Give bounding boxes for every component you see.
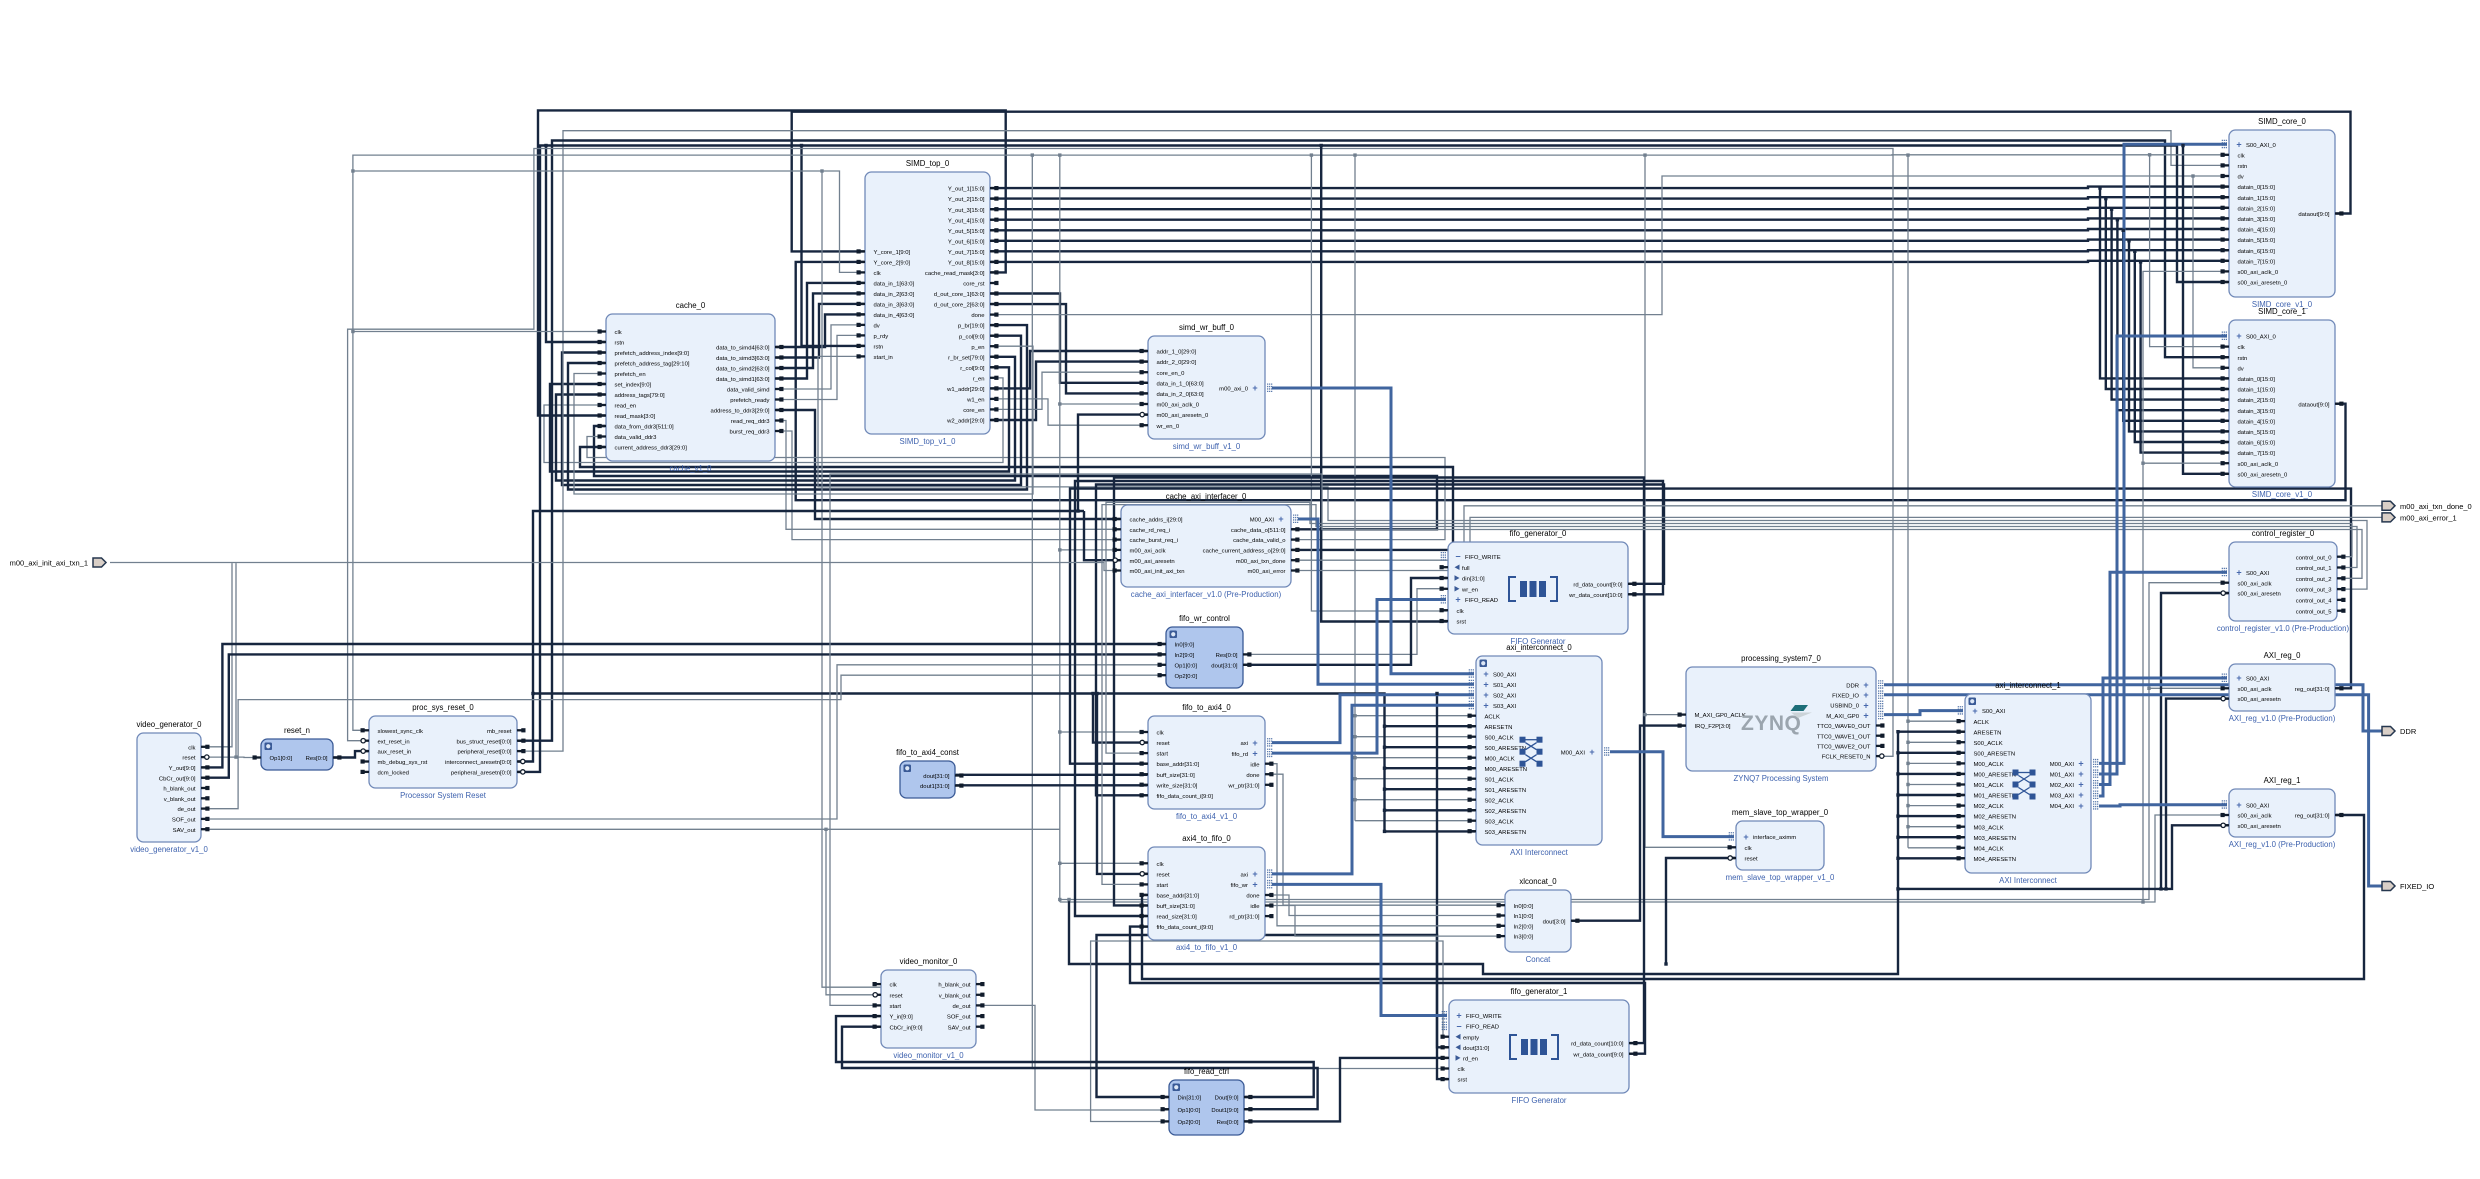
wire net_clk_bottom (1060, 815, 2229, 902)
svg-text:S02_ACLK: S02_ACLK (1485, 798, 1514, 804)
svg-text:ACLK: ACLK (1974, 720, 1989, 726)
svg-text:ARESETN: ARESETN (1974, 730, 2002, 736)
svg-text:axi4_to_fifo_0: axi4_to_fifo_0 (1182, 834, 1231, 843)
svg-text:wr_data_count[9:0]: wr_data_count[9:0] (1572, 1052, 1623, 1058)
svg-text:dv: dv (874, 324, 880, 330)
svg-text:de_out: de_out (177, 807, 195, 813)
wire net_Y_out_4_br (2117, 220, 2229, 411)
wire net_wr_count0 (1075, 481, 1663, 916)
svg-text:+: + (1252, 869, 1257, 879)
svg-text:data_valid_simd: data_valid_simd (727, 388, 770, 394)
svg-text:−: − (1455, 552, 1460, 562)
svg-text:+: + (1863, 711, 1868, 721)
svg-text:M00_ACLK: M00_ACLK (1974, 762, 2004, 768)
wire net_peripheral_aresetn_br2 (546, 146, 606, 343)
svg-text:Y_out_8[15:0]: Y_out_8[15:0] (948, 261, 985, 267)
svg-text:h_blank_out: h_blank_out (163, 787, 195, 793)
svg-text:reset: reset (182, 756, 195, 762)
svg-text:+: + (2078, 769, 2083, 779)
svg-text:In2[9:0]: In2[9:0] (1175, 653, 1195, 659)
wire net_clk_ic1_3 (1908, 784, 1965, 786)
wire net_clk_ps7 (1645, 714, 1686, 716)
port m00_axi_error_1 (2382, 513, 2457, 523)
wire net_error (1291, 517, 2382, 570)
svg-text:ZYNQ: ZYNQ (1741, 712, 1801, 735)
svg-text:M00_ARESETN: M00_ARESETN (1974, 773, 2017, 779)
wire net_aresetn_R2 (1898, 825, 2229, 889)
wire net_clk_ic1_1 (1908, 741, 1965, 743)
svg-text:control_out_1: control_out_1 (2296, 566, 2332, 572)
svg-text:Res[0:0]: Res[0:0] (1216, 653, 1238, 659)
svg-text:Y_out_1[15:0]: Y_out_1[15:0] (948, 187, 985, 193)
wire net_ctrl_out1 (1102, 505, 2357, 885)
svg-text:m00_axi_init_axi_txn_1: m00_axi_init_axi_txn_1 (10, 559, 88, 568)
svg-text:In2[0:0]: In2[0:0] (1514, 924, 1534, 930)
wire net_bus_struct (517, 141, 2229, 741)
block SIMD_core_1 (2221, 307, 2344, 499)
wire net_clk_simd_top (353, 171, 865, 272)
svg-text:axi4_to_fifo_v1_0: axi4_to_fifo_v1_0 (1176, 943, 1238, 952)
wire net_clk_fta4 (1060, 731, 1148, 733)
wire net_clk_core1 (2150, 155, 2229, 347)
svg-text:control_register_0: control_register_0 (2252, 529, 2315, 538)
svg-text:fifo_data_count_i[9:0]: fifo_data_count_i[9:0] (1157, 794, 1214, 800)
svg-text:Op1[0:0]: Op1[0:0] (270, 756, 293, 762)
wire net_SOF_out (201, 665, 1166, 819)
wire net_clk_cache (353, 331, 606, 333)
svg-text:w1_addr[29:0]: w1_addr[29:0] (946, 387, 985, 393)
block fifo_generator_0 (1440, 529, 1637, 646)
wire net_core_en (990, 372, 1148, 409)
svg-text:IRQ_F2P[3:0]: IRQ_F2P[3:0] (1695, 724, 1731, 730)
svg-text:AXI Interconnect: AXI Interconnect (1510, 848, 1568, 857)
svg-text:data_in_2[63:0]: data_in_2[63:0] (874, 292, 915, 298)
svg-text:idle: idle (1250, 904, 1260, 910)
svg-text:done: done (971, 313, 985, 319)
wire net_p_br (568, 325, 1027, 489)
svg-text:M01_AXI: M01_AXI (2050, 773, 2075, 779)
svg-text:video_generator_0: video_generator_0 (136, 720, 202, 729)
svg-text:cache_axi_interfacer_0: cache_axi_interfacer_0 (1166, 492, 1247, 501)
svg-text:reset: reset (890, 993, 903, 999)
wire net_aresetn_ic1_816 (1898, 815, 1965, 817)
svg-text:M_AXI_GP0: M_AXI_GP0 (1826, 714, 1859, 720)
svg-text:S03_ACLK: S03_ACLK (1485, 819, 1514, 825)
svg-text:Op2[0:0]: Op2[0:0] (1178, 1120, 1201, 1126)
block xlconcat_0 (1497, 877, 1580, 964)
svg-text:+: + (2078, 801, 2083, 811)
svg-text:clk: clk (1157, 731, 1164, 737)
svg-text:cache_addrs_i[29:0]: cache_addrs_i[29:0] (1130, 518, 1183, 524)
svg-text:dv: dv (2238, 366, 2244, 372)
wire net_reset_n_res (333, 751, 369, 757)
wire net_aresetn_ic0_768 (1385, 767, 1477, 769)
svg-text:S01_ARESETN: S01_ARESETN (1485, 788, 1527, 794)
svg-text:interconnect_aresetn[0:0]: interconnect_aresetn[0:0] (445, 760, 512, 766)
svg-text:slowest_sync_clk: slowest_sync_clk (378, 729, 424, 735)
svg-text:peripheral_reset[0:0]: peripheral_reset[0:0] (457, 750, 511, 756)
svg-text:data_in_2_0[63:0]: data_in_2_0[63:0] (1157, 392, 1205, 398)
svg-text:ext_reset_in: ext_reset_in (378, 739, 410, 745)
block SIMD_core_0 (2221, 117, 2344, 309)
svg-text:S00_AXI_0: S00_AXI_0 (2246, 143, 2277, 149)
svg-text:clk: clk (1457, 609, 1464, 615)
svg-text:start: start (1157, 883, 1169, 889)
svg-text:w1_en: w1_en (966, 398, 984, 404)
svg-text:buff_size[31:0]: buff_size[31:0] (1157, 773, 1196, 779)
svg-text:S03_ARESETN: S03_ARESETN (1485, 830, 1527, 836)
wire net_clk_ic0_1 (1355, 736, 1476, 738)
wire axi_ic1_m02 (2099, 572, 2227, 784)
svg-text:clk: clk (874, 271, 881, 277)
svg-text:S00_AXI: S00_AXI (2246, 677, 2270, 683)
svg-text:cache_current_address_o[29:0]: cache_current_address_o[29:0] (1203, 549, 1286, 555)
svg-text:SOF_out: SOF_out (947, 1015, 971, 1021)
svg-text:datain_1[15:0]: datain_1[15:0] (2238, 388, 2276, 394)
wire net_srst_gen1 (1437, 694, 1449, 1080)
svg-text:dataout[9:0]: dataout[9:0] (2298, 212, 2329, 218)
wire net_aresetn_ic1_795 (1898, 794, 1965, 796)
svg-text:data_from_ddr3[511:0]: data_from_ddr3[511:0] (615, 425, 675, 431)
wire axi_interf_s01 (1298, 519, 1474, 684)
wire net_ctrl_out2 (830, 474, 2362, 1005)
svg-text:S00_AXI_0: S00_AXI_0 (2246, 335, 2277, 341)
svg-text:s00_axi_aclk_0: s00_axi_aclk_0 (2238, 270, 2279, 276)
svg-text:cache_0: cache_0 (676, 301, 706, 310)
svg-text:FIFO_WRITE: FIFO_WRITE (1466, 1014, 1502, 1020)
svg-text:m00_axi_aresetn_0: m00_axi_aresetn_0 (1157, 413, 1209, 419)
port DDR (2382, 727, 2417, 737)
wire net_data_valid_simd (775, 325, 865, 389)
svg-text:+: + (1252, 738, 1257, 748)
svg-text:idle: idle (1250, 762, 1260, 768)
wire net_rd_count1 (1114, 478, 1644, 1044)
svg-text:read_req_ddr3: read_req_ddr3 (731, 419, 770, 425)
wire net_ic_aresetn (517, 511, 1084, 762)
wire net_fifo_wr_dout (1243, 578, 1448, 665)
svg-text:control_out_0: control_out_0 (2296, 555, 2332, 561)
wire net_fta4_done_in0 (1265, 774, 1505, 905)
svg-text:address_tags[79:0]: address_tags[79:0] (615, 393, 665, 399)
svg-text:prefetch_ready: prefetch_ready (730, 398, 769, 404)
svg-text:dout[31:0]: dout[31:0] (1211, 663, 1238, 669)
block video_monitor_0 (873, 957, 985, 1060)
wire net_Y_out_2 (990, 197, 2229, 198)
svg-text:datain_3[15:0]: datain_3[15:0] (2238, 409, 2276, 415)
svg-text:wr_data_count[10:0]: wr_data_count[10:0] (1568, 593, 1623, 599)
svg-text:Y_out_2[15:0]: Y_out_2[15:0] (948, 197, 985, 203)
svg-text:SIMD_top_0: SIMD_top_0 (906, 159, 950, 168)
svg-text:SIMD_top_v1_0: SIMD_top_v1_0 (900, 437, 957, 446)
svg-text:wr_en_0: wr_en_0 (1156, 424, 1180, 430)
block fifo_read_ctrl (1161, 1067, 1253, 1135)
svg-text:read_size[31:0]: read_size[31:0] (1157, 915, 1198, 921)
wire net_peripheral_aresetn_br3 (802, 146, 866, 346)
svg-text:AXI_reg_0: AXI_reg_0 (2264, 651, 2302, 660)
wire net_clk_bottom2 (1060, 583, 2229, 900)
svg-text:s00_axi_aclk: s00_axi_aclk (2238, 581, 2272, 587)
svg-text:FIXED_IO: FIXED_IO (2400, 882, 2434, 891)
wire net_reset_a4f (1097, 694, 1148, 874)
svg-text:r_col[9:0]: r_col[9:0] (960, 366, 985, 372)
svg-text:rd_ptr[31:0]: rd_ptr[31:0] (1229, 915, 1259, 921)
wire net_cache_data_o (594, 426, 1437, 529)
wire net_Y_out_4 (990, 218, 2229, 219)
wire net_w1_en (990, 399, 1148, 425)
svg-text:axi: axi (1240, 741, 1248, 747)
wire net_clk_riser_mid (1059, 155, 1061, 902)
wire net_reset_memslave (1666, 858, 1736, 964)
svg-text:dout[3:0]: dout[3:0] (1543, 919, 1566, 925)
icon crossbar axi_interconnect_1 (2013, 770, 2036, 800)
block fifo_to_axi4_0 (1140, 703, 1274, 821)
wire net_data_to_simd2 (775, 293, 865, 368)
block axi4_to_fifo_0 (1140, 834, 1274, 952)
wire net_clk_cores_riser (2143, 271, 2229, 902)
svg-text:S00_ACLK: S00_ACLK (1485, 735, 1514, 741)
block mem_slave_top_wrapper_0 (1726, 808, 1835, 882)
svg-text:cache_read_mask[3:0]: cache_read_mask[3:0] (925, 271, 985, 277)
wire net_a4f_done_in1 (1265, 895, 1505, 916)
svg-text:datain_0[15:0]: datain_0[15:0] (2238, 185, 2276, 191)
svg-text:M04_AXI: M04_AXI (2050, 804, 2075, 810)
svg-text:video_monitor_0: video_monitor_0 (900, 957, 958, 966)
svg-text:+: + (2236, 568, 2241, 578)
svg-text:datain_4[15:0]: datain_4[15:0] (2238, 228, 2276, 234)
wire net_const_dout (955, 774, 1148, 776)
svg-text:+: + (2236, 673, 2241, 683)
svg-text:−: − (1456, 1021, 1461, 1031)
wire net_clk_a4f (1060, 862, 1148, 864)
svg-text:Y_core_2[9:0]: Y_core_2[9:0] (874, 261, 911, 267)
svg-text:dataout[9:0]: dataout[9:0] (2298, 402, 2329, 408)
block reset_n (253, 726, 342, 770)
svg-text:clk: clk (188, 745, 195, 751)
wire axi_a4f_fifowr (1272, 884, 1447, 1015)
wire net_peripheral_aresetn (517, 146, 2229, 772)
svg-text:start_in: start_in (874, 355, 893, 361)
wire axi_ic1_m01 (2099, 336, 2227, 774)
svg-text:Dout1[9:0]: Dout1[9:0] (1211, 1108, 1239, 1114)
wire net_clk_gen1 (1032, 155, 1449, 1068)
svg-text:rstn: rstn (2238, 164, 2248, 170)
wire net_Y_out_1_br (2100, 188, 2229, 378)
svg-text:m00_axi_txn_done: m00_axi_txn_done (1236, 559, 1287, 565)
wire net_r_br_set (556, 357, 1015, 481)
wire net_data_to_simd1 (775, 283, 865, 379)
svg-text:data_in_1[63:0]: data_in_1[63:0] (874, 282, 915, 288)
block axi_interconnect_0 (1468, 643, 1609, 857)
wire net_srst_gen0 (1321, 146, 1448, 622)
wire net_Y_out_8_br (2141, 262, 2229, 453)
wire net_clk_ic1_0 (1908, 720, 1965, 722)
wire net_aresetn_ic1_858 (1898, 857, 1965, 859)
svg-text:M00_AXI: M00_AXI (1250, 518, 1275, 524)
wire net_clk_ic1_2 (1908, 762, 1965, 764)
svg-text:Y_out_4[15:0]: Y_out_4[15:0] (948, 218, 985, 224)
svg-text:In1[0:0]: In1[0:0] (1514, 914, 1534, 920)
svg-text:S00_AXI: S00_AXI (1493, 672, 1517, 678)
wire net_start_in (818, 356, 2367, 589)
svg-text:fifo_rd: fifo_rd (1232, 752, 1248, 758)
svg-text:control_register_v1.0 (Pre-Pro: control_register_v1.0 (Pre-Production) (2217, 624, 2350, 633)
wire net_fta4_idle_in2 (1265, 764, 1505, 926)
svg-text:cache_data_o[511:0]: cache_data_o[511:0] (1231, 528, 1286, 534)
svg-text:m00_axi_0: m00_axi_0 (1219, 387, 1249, 393)
block proc_sys_reset_0 (361, 703, 526, 800)
wire net_aresetn_ic1_773 (1898, 773, 1965, 775)
svg-text:reg_out[31:0]: reg_out[31:0] (2295, 814, 2330, 820)
svg-text:Op1[0:0]: Op1[0:0] (1175, 663, 1198, 669)
svg-text:start: start (1157, 752, 1169, 758)
svg-text:data_valid_ddr3: data_valid_ddr3 (615, 435, 658, 441)
svg-text:d_out_core_1[63:0]: d_out_core_1[63:0] (934, 292, 985, 298)
wire net_r_col (550, 367, 1009, 471)
svg-text:fifo_wr_control: fifo_wr_control (1179, 614, 1230, 623)
svg-text:cache_axi_interfacer_v1.0 (Pre: cache_axi_interfacer_v1.0 (Pre-Productio… (1131, 590, 1282, 599)
block fifo_to_axi4_const (896, 748, 963, 798)
svg-text:core_rst: core_rst (963, 282, 985, 288)
wire net_Y_out_3_br (2112, 209, 2229, 399)
svg-text:p_br[19:0]: p_br[19:0] (958, 324, 985, 330)
wire net_Y_out_6_br (2129, 241, 2229, 432)
wire net_aresetn_ic0_726 (1385, 725, 1477, 727)
svg-text:simd_wr_buff_0: simd_wr_buff_0 (1179, 323, 1235, 332)
svg-text:rstn: rstn (615, 341, 625, 347)
wire net_ic_aresetn_interf (1084, 511, 1121, 560)
svg-text:r_en: r_en (973, 376, 985, 382)
wire net_peripheral_aresetn_br1 (2183, 146, 2229, 474)
wire net_prefetch_ready (775, 335, 865, 399)
svg-text:M01_ARESETN: M01_ARESETN (1974, 794, 2017, 800)
svg-text:fifo_to_axi4_v1_0: fifo_to_axi4_v1_0 (1176, 812, 1238, 821)
wire net_dataout_core0 (792, 112, 2351, 252)
svg-text:s00_axi_aresetn_0: s00_axi_aresetn_0 (2238, 472, 2289, 478)
svg-text:address_to_ddr3[29:0]: address_to_ddr3[29:0] (711, 409, 770, 415)
svg-text:SAV_out: SAV_out (173, 828, 196, 834)
svg-text:FIFO_READ: FIFO_READ (1465, 598, 1498, 604)
svg-text:xlconcat_0: xlconcat_0 (1519, 877, 1557, 886)
svg-text:M03_AXI: M03_AXI (2050, 794, 2075, 800)
svg-text:prefetch_en: prefetch_en (615, 372, 646, 378)
wire axi_ic1_m00 (2099, 144, 2227, 763)
svg-text:+: + (1278, 514, 1283, 524)
wire axi_fta4_fiford (1272, 600, 1446, 754)
svg-text:fifo_to_axi4_const: fifo_to_axi4_const (896, 748, 960, 757)
svg-text:base_addr[31:0]: base_addr[31:0] (1157, 894, 1200, 900)
svg-text:w2_addr[29:0]: w2_addr[29:0] (946, 419, 985, 425)
svg-text:din[31:0]: din[31:0] (1462, 577, 1485, 583)
svg-text:p_rdy: p_rdy (874, 334, 889, 340)
wire net_d_out_core_1 (990, 294, 1148, 383)
block fifo_wr_control (1158, 614, 1252, 688)
svg-text:Res[0:0]: Res[0:0] (1217, 1120, 1239, 1126)
svg-text:data_to_simd4[63:0]: data_to_simd4[63:0] (716, 346, 770, 352)
svg-text:CbCr_out[9:0]: CbCr_out[9:0] (159, 776, 196, 782)
svg-text:addr_2_0[29:0]: addr_2_0[29:0] (1157, 360, 1197, 366)
svg-text:control_out_2: control_out_2 (2296, 577, 2332, 583)
icon ZYNQ logo (1741, 705, 1812, 735)
svg-text:AXI Interconnect: AXI Interconnect (1999, 876, 2057, 885)
svg-text:reset: reset (1157, 872, 1170, 878)
wire net_cache_current_address_o (580, 447, 1453, 550)
svg-text:prefetch_address_index[9:0]: prefetch_address_index[9:0] (615, 351, 690, 357)
svg-text:+: + (2236, 800, 2241, 810)
icon crossbar axi_interconnect_0 (1520, 737, 1543, 767)
wire net_p_col (562, 336, 1021, 485)
svg-text:fifo_read_ctrl: fifo_read_ctrl (1184, 1067, 1229, 1076)
wire net_aresetn_ic0_747 (1385, 746, 1477, 748)
svg-text:M03_ACLK: M03_ACLK (1974, 825, 2004, 831)
port FIXED_IO (2382, 882, 2434, 892)
wire net_Y_out_5 (990, 229, 2229, 230)
wire net_Y_out_6 (990, 240, 2229, 241)
svg-text:data_in_1_0[63:0]: data_in_1_0[63:0] (1157, 381, 1205, 387)
svg-text:M04_ARESETN: M04_ARESETN (1974, 857, 2017, 863)
svg-text:mem_slave_top_wrapper_0: mem_slave_top_wrapper_0 (1732, 808, 1829, 817)
svg-text:start: start (890, 1004, 902, 1010)
svg-text:rd_en: rd_en (1463, 1057, 1478, 1063)
wire axi_fta4_s02 (1272, 695, 1474, 743)
block cache_0 (598, 301, 784, 473)
wire net_clk_ic0_5 (1355, 820, 1476, 822)
svg-text:Processor System Reset: Processor System Reset (400, 791, 487, 800)
svg-text:m00_axi_txn_done_0: m00_axi_txn_done_0 (2400, 502, 2472, 511)
svg-text:S01_ACLK: S01_ACLK (1485, 777, 1514, 783)
svg-text:v_blank_out: v_blank_out (164, 797, 196, 803)
wire net_ic_aresetn_wrbuff (1078, 415, 1148, 511)
svg-text:FIXED_IO: FIXED_IO (1832, 694, 1859, 700)
svg-text:axi_interconnect_0: axi_interconnect_0 (1506, 643, 1572, 652)
svg-text:done: done (1246, 773, 1260, 779)
wire net_Y_out_3 (990, 208, 2229, 209)
svg-text:M00_AXI: M00_AXI (1561, 750, 1586, 756)
wire net_const_dout1 (955, 784, 1148, 786)
wire net_address_to_ddr3 (775, 410, 1121, 519)
svg-text:SIMD_core_1: SIMD_core_1 (2258, 307, 2306, 316)
wire net_d_out_core_2 (990, 304, 1148, 393)
svg-text:reset_n: reset_n (284, 726, 310, 735)
svg-text:fifo_wr: fifo_wr (1231, 883, 1248, 889)
svg-text:srst: srst (1458, 1078, 1468, 1084)
svg-text:+: + (1455, 595, 1460, 605)
wire net_peripheral_reset (517, 131, 2229, 751)
wire net_empty_gen1 (1091, 941, 1449, 1122)
svg-text:Y_out_6[15:0]: Y_out_6[15:0] (948, 239, 985, 245)
svg-text:+: + (1863, 700, 1868, 710)
svg-text:clk: clk (615, 330, 622, 336)
svg-text:+: + (1589, 747, 1594, 757)
svg-text:data_to_simd2[63:0]: data_to_simd2[63:0] (716, 367, 770, 373)
svg-text:full: full (1462, 566, 1470, 572)
wire net_clk_monitor (822, 171, 881, 987)
svg-text:Dout[9:0]: Dout[9:0] (1215, 1096, 1239, 1102)
svg-text:S00_ACLK: S00_ACLK (1974, 741, 2003, 747)
svg-text:mb_debug_sys_rst: mb_debug_sys_rst (378, 760, 428, 766)
wire net_aresetn_reg0 (2166, 699, 2229, 889)
svg-text:interface_aximm: interface_aximm (1753, 835, 1796, 841)
block AXI_reg_0 (2221, 651, 2344, 723)
svg-text:DDR: DDR (1846, 683, 1859, 689)
wire net_Y_out_1 (990, 187, 2229, 189)
wire net_Y_out_7 (990, 250, 2229, 251)
svg-text:processing_system7_0: processing_system7_0 (1741, 654, 1821, 663)
svg-text:rd_data_count[10:0]: rd_data_count[10:0] (1571, 1042, 1624, 1048)
svg-text:fifo_generator_1: fifo_generator_1 (1511, 987, 1568, 996)
wire net_wr_count1 (1130, 927, 1645, 1054)
wire net_dataout_core1 (796, 262, 2346, 500)
svg-text:M01_ACLK: M01_ACLK (1974, 783, 2004, 789)
